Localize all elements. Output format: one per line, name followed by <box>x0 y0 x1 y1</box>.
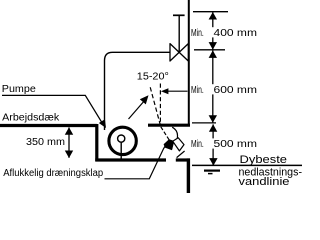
svg-text:Arbejdsdæk: Arbejdsdæk <box>2 112 60 123</box>
svg-text:Min.: Min. <box>191 139 204 150</box>
dim arrow down (400 bottom) <box>209 42 217 50</box>
dim line 350 <box>68 128 70 158</box>
white gap for Min 400 text <box>190 27 259 37</box>
dim ref line mid (valve level) <box>194 49 225 51</box>
angle arrow up-right tail <box>129 101 145 119</box>
angle arrow up-right <box>140 95 149 104</box>
hull lower plate vertical <box>187 158 190 193</box>
jet axis dashed <box>161 127 170 141</box>
dim arrow down (350 bottom) <box>65 151 73 159</box>
dim arrow up (350 top) <box>65 127 73 135</box>
svg-text:Dybeste: Dybeste <box>240 154 288 166</box>
flap plate outline <box>173 138 184 151</box>
jet arrow <box>164 139 174 150</box>
branch pipe from pump to valve <box>105 52 171 130</box>
pumpe leader line <box>2 95 103 123</box>
dim ref tick at shell edge <box>192 122 216 124</box>
dim arrow down (500 bottom, waterline) <box>209 158 217 166</box>
waterline <box>192 164 302 166</box>
svg-text:500 mm: 500 mm <box>214 139 258 150</box>
discharge standpipe <box>188 0 190 126</box>
deck recess floor <box>95 158 166 161</box>
svg-text:400 mm: 400 mm <box>214 28 258 39</box>
svg-text:600 mm: 600 mm <box>214 85 258 96</box>
white gap for Min 500 text <box>190 138 259 148</box>
svg-text:15-20°: 15-20° <box>137 72 169 83</box>
dim arrow up (400 top) <box>209 12 217 20</box>
dim arrow down (600 bottom) <box>209 115 217 123</box>
dim ref line top <box>193 11 228 13</box>
shell bottom edge (upper plate lower edge) <box>148 124 190 127</box>
valve V1 bowtie <box>170 44 188 61</box>
angle vertical dashed ray <box>159 84 161 126</box>
angle arrow left <box>161 88 169 94</box>
svg-text:vandlinie: vandlinie <box>239 176 290 188</box>
dim line 400 <box>212 12 214 49</box>
pump impeller hub <box>118 135 125 142</box>
dim arrow up (600 top) <box>209 50 217 58</box>
flap hinge arc <box>172 127 177 138</box>
hull lower plate horizontal <box>176 158 190 161</box>
deck top edge <box>0 124 97 127</box>
flap leader arrow <box>166 142 172 149</box>
dim line 600 <box>212 51 214 123</box>
svg-text:Min.: Min. <box>191 85 204 96</box>
svg-text:Aflukkelig dræningsklap: Aflukkelig dræningsklap <box>3 168 103 179</box>
svg-text:350 mm: 350 mm <box>26 137 65 148</box>
valve handle <box>173 14 185 16</box>
pump hub stem <box>120 142 122 159</box>
waterline tick 2 <box>204 170 220 172</box>
svg-text:Pumpe: Pumpe <box>2 84 36 95</box>
svg-text:Min.: Min. <box>191 28 204 39</box>
deck step <box>95 124 98 161</box>
white gap for Min 600 text <box>190 84 259 94</box>
waterline tick 3 <box>208 173 213 175</box>
angle arrow left tail <box>166 90 188 92</box>
pumpe leader arrow <box>99 119 106 128</box>
pump P1 outer casing <box>109 127 136 154</box>
dim arrow up (500 top) <box>209 124 217 132</box>
dim line 500 <box>212 124 214 165</box>
angle inclined dashed ray <box>150 85 161 125</box>
flap lower line <box>177 151 185 158</box>
flap leader line <box>105 147 165 179</box>
valve stem <box>178 15 180 52</box>
